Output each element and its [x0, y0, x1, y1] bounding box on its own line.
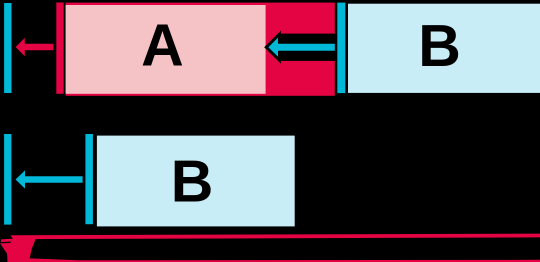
row 1: black band behind cyan arrow	[279, 34, 338, 61]
row 2: rod B	[97, 136, 295, 227]
row 1: cyan arrow with black outline	[268, 38, 335, 57]
row 1: red arrow pointing left	[16, 38, 54, 56]
row 1: rod B (light blue)	[348, 4, 540, 93]
row 1: cyan marker bar 2	[337, 3, 345, 94]
svg-text:A: A	[141, 13, 184, 79]
row 2: marker bar 2	[85, 134, 93, 224]
row 2: cyan arrow pointing left	[16, 170, 83, 188]
bottom: sheared arrow shaft dash	[1, 239, 11, 242]
row 1: pink rod A	[66, 5, 266, 94]
row 1: crimson rect (rod A outline/extension)	[66, 3, 335, 96]
bottom: crimson blob (sheared bar + head)	[0, 237, 37, 262]
row 1: red marker bar	[56, 3, 63, 94]
svg-text:B: B	[171, 148, 214, 214]
bottom: second crimson line at very bottom	[28, 258, 540, 262]
row 1: marker bar left (cyan)	[4, 3, 11, 93]
svg-text:B: B	[418, 13, 461, 79]
row 2: marker bar left	[4, 134, 11, 225]
bottom: long crimson line	[11, 234, 540, 240]
